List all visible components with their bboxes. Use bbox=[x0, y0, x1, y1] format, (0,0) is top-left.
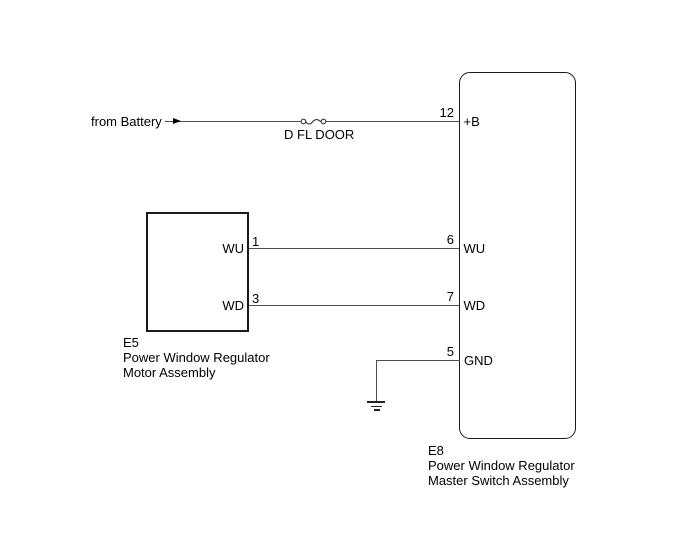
connector E8 box bbox=[459, 72, 576, 439]
pin number 5 bbox=[420, 344, 454, 359]
fuse label D FL DOOR bbox=[284, 127, 354, 142]
wire GND vertical drop bbox=[376, 360, 377, 402]
fuse D FL DOOR bbox=[297, 112, 329, 131]
ground symbol bbox=[367, 401, 385, 403]
pin label WU (E5 side) bbox=[190, 241, 244, 256]
pin label +B bbox=[464, 114, 480, 129]
pin number 7 bbox=[420, 289, 454, 304]
pin label WU (E8 side) bbox=[464, 241, 486, 256]
wire WU bbox=[249, 248, 460, 249]
node from Battery label bbox=[91, 114, 162, 129]
wire WD bbox=[249, 305, 460, 306]
arrow on battery feed wire bbox=[173, 118, 181, 124]
label E5 block bbox=[123, 335, 270, 380]
pin label WD (E8 side) bbox=[464, 298, 486, 313]
wire +B feed from battery bbox=[165, 121, 460, 122]
pin number 3 bbox=[252, 291, 259, 306]
pin number 1 bbox=[252, 234, 259, 249]
pin label WD (E5 side) bbox=[190, 298, 244, 313]
connector E5 box bbox=[146, 212, 249, 332]
pin number 6 bbox=[420, 232, 454, 247]
wire GND horizontal bbox=[376, 360, 460, 361]
label E8 block bbox=[428, 443, 575, 488]
pin label GND bbox=[464, 353, 493, 368]
pin number 12 bbox=[420, 105, 454, 120]
